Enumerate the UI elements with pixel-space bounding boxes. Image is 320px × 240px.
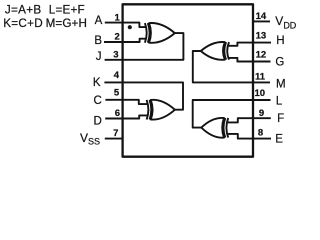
gate A4 input wire from pin 8 <box>227 134 253 139</box>
XOR gate A4 body <box>201 118 224 138</box>
svg-text:B: B <box>94 35 102 47</box>
wire J output to pin 3 <box>105 33 184 60</box>
svg-text:M=G+H: M=G+H <box>46 17 87 30</box>
svg-text:J: J <box>96 51 102 63</box>
svg-text:11: 11 <box>255 72 266 83</box>
gate A3 input wire from pin 5 <box>123 100 148 104</box>
XOR gate A1 back arc 1 <box>145 23 147 43</box>
svg-text:1: 1 <box>115 12 121 23</box>
svg-text:10: 10 <box>255 88 266 99</box>
gate A2 input wire from pin 13 <box>228 43 253 46</box>
svg-text:3: 3 <box>113 50 118 61</box>
gate A1 input wire from pin 1 <box>123 23 147 28</box>
svg-text:A: A <box>95 15 103 27</box>
pin 5 wire C <box>105 99 122 101</box>
svg-text:VSS: VSS <box>80 131 100 146</box>
XOR gate A3 back arc 2 <box>150 100 152 120</box>
wire K output to pin 4 <box>104 82 183 109</box>
XOR gate A2 back arc 2 <box>224 42 226 60</box>
XOR gate A4 back arc 1 <box>226 118 228 138</box>
gate A4 input wire from pin 9 <box>227 118 253 122</box>
svg-text:4: 4 <box>114 70 120 81</box>
svg-text:12: 12 <box>256 50 267 61</box>
svg-text:8: 8 <box>258 128 263 139</box>
svg-text:D: D <box>93 115 101 127</box>
svg-text:7: 7 <box>113 128 118 139</box>
pin 12 wire G <box>253 61 271 63</box>
pin 7 wire VSS <box>105 138 123 140</box>
pin 2 wire B <box>104 41 123 43</box>
svg-text:14: 14 <box>256 11 267 22</box>
XOR gate A2 body <box>201 42 225 60</box>
package orientation dot <box>128 25 132 29</box>
pin 13 wire H <box>253 42 271 44</box>
gate A3 input wire from pin 6 <box>123 115 148 118</box>
svg-text:L: L <box>276 95 283 107</box>
wire M output to pin 11 <box>193 51 270 82</box>
svg-text:H: H <box>276 35 284 47</box>
svg-text:G: G <box>275 56 284 68</box>
svg-text:5: 5 <box>114 88 120 99</box>
gate A2 input wire from pin 12 <box>228 58 253 62</box>
pin 8 wire E <box>253 138 271 140</box>
XOR gate A1 body <box>149 23 175 43</box>
IC package outline U1 <box>123 4 253 156</box>
svg-text:6: 6 <box>115 108 120 119</box>
svg-text:K=C+D: K=C+D <box>3 17 43 30</box>
XOR gate A3 back arc 1 <box>147 100 149 120</box>
svg-text:M: M <box>276 79 286 91</box>
svg-text:2: 2 <box>115 32 120 43</box>
pin 6 wire D <box>105 118 122 120</box>
pin 1 wire A <box>105 22 123 24</box>
svg-text:K: K <box>93 77 101 89</box>
svg-text:9: 9 <box>259 108 264 119</box>
svg-text:E: E <box>275 134 283 146</box>
XOR gate A1 back arc 2 <box>148 23 150 43</box>
XOR gate A2 back arc 1 <box>227 42 229 60</box>
svg-text:F: F <box>277 113 284 125</box>
svg-text:J=A+B: J=A+B <box>5 3 42 16</box>
XOR gate A4 back arc 2 <box>224 118 226 138</box>
svg-text:L=E+F: L=E+F <box>49 3 85 16</box>
wire L output to pin 10 <box>193 100 271 128</box>
svg-text:13: 13 <box>256 31 267 42</box>
XOR gate A3 body <box>151 100 175 120</box>
gate A1 input wire from pin 2 <box>123 39 147 42</box>
svg-text:VDD: VDD <box>275 14 297 31</box>
svg-text:C: C <box>93 95 101 107</box>
pin 9 wire F <box>253 117 271 119</box>
pin 14 wire VDD <box>253 20 270 22</box>
